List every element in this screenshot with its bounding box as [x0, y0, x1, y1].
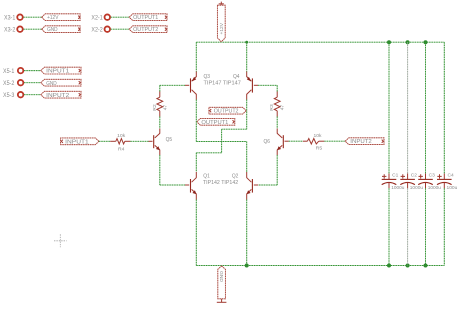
svg-text:R3: R3 — [269, 104, 275, 111]
transistor Q5 — [149, 129, 160, 156]
wire C2 column upper — [407, 42, 409, 173]
resistor R5 — [303, 139, 324, 145]
capacitor C4 — [437, 174, 452, 189]
wire Q4 base net down to R3 — [276, 85, 278, 91]
supply flag +12V — [217, 2, 225, 42]
svg-text:INPUT1: INPUT1 — [65, 139, 89, 145]
svg-text:GND: GND — [218, 271, 224, 283]
svg-text:+12V: +12V — [47, 15, 59, 21]
svg-text:INPUT2: INPUT2 — [46, 93, 69, 99]
svg-text:10k: 10k — [117, 133, 126, 139]
wire R4 to Q5 base — [130, 140, 148, 142]
wire OUT1: down to Q2 collector — [246, 142, 248, 173]
wire C4 column lower — [443, 188, 445, 265]
net flag INPUT2 mid — [345, 138, 384, 145]
net flag GND — [42, 26, 80, 33]
wire X2-1 to OUTPUT1 flag — [111, 16, 130, 18]
wire X5-1 to INPUT1 flag — [24, 70, 41, 72]
wire OUT2: upper horizontal — [222, 128, 247, 130]
wire GND bottom rail — [196, 265, 444, 267]
svg-text:OUTPUT2: OUTPUT2 — [133, 27, 158, 33]
junction top C3 column — [424, 40, 428, 44]
wire Q3 base net down to R2 — [159, 85, 161, 91]
wire Q1 emitter to bottom rail — [195, 200, 197, 266]
wire Q5 emitter down — [159, 155, 161, 185]
junction bottom C2 column — [406, 264, 410, 268]
svg-text:R5: R5 — [316, 146, 323, 152]
wire C3 column lower — [425, 188, 427, 265]
resistor R4 — [110, 139, 130, 144]
wire R5 to INPUT2 flag — [324, 140, 345, 142]
transistor Q6 — [277, 129, 289, 156]
svg-text:Q1: Q1 — [203, 173, 210, 179]
capacitor C3 — [418, 174, 433, 189]
junction top C2 column — [406, 40, 410, 44]
svg-text:Q6: Q6 — [264, 139, 271, 145]
svg-text:X2-2: X2-2 — [91, 27, 103, 33]
wire Q2 emitter to bottom rail — [246, 200, 248, 266]
transistor Q1 TIP142 — [185, 172, 196, 200]
wire C3 column upper — [425, 42, 427, 173]
svg-text:X3-2: X3-2 — [4, 27, 16, 33]
net flag OUTPUT2 top — [129, 26, 167, 33]
svg-text:X5-3: X5-3 — [3, 93, 15, 99]
net flag INPUT1 mid — [61, 138, 99, 145]
wire R3 to Q6 collector — [276, 117, 278, 129]
svg-text:X5-2: X5-2 — [3, 81, 15, 87]
net flag INPUT1 left — [41, 67, 81, 75]
wire Q4 base net — [258, 84, 277, 86]
svg-text:47: 47 — [162, 104, 168, 110]
svg-text:OUTPUT1: OUTPUT1 — [201, 120, 228, 126]
wire C1 column upper — [388, 42, 390, 173]
wire +12V top rail — [196, 41, 444, 43]
pin X5-1 — [18, 68, 24, 74]
wire C2 column lower — [407, 188, 409, 265]
wire Q6 emitter down — [276, 155, 278, 185]
wire OUT1: Q3 collector down — [195, 100, 197, 142]
pin X2-2 — [105, 26, 111, 32]
svg-text:GND: GND — [47, 27, 58, 33]
svg-text:C4: C4 — [448, 172, 455, 178]
wire C1 column lower — [388, 188, 390, 265]
junction bottom Q2 column — [245, 264, 249, 268]
wire OUT2: lower horizontal — [196, 152, 221, 154]
svg-text:1000u: 1000u — [428, 185, 442, 191]
svg-text:+12V: +12V — [219, 22, 225, 34]
wire Q6 emitter to Q2 base — [258, 184, 277, 186]
resistor R2 — [157, 92, 163, 117]
wire Q5 emitter to Q1 base — [160, 184, 185, 186]
wire OUT2: middle vertical — [221, 129, 223, 153]
wire X5-2 to GND flag — [24, 82, 41, 84]
svg-text:C1: C1 — [392, 172, 399, 178]
pin X3-2 — [17, 26, 23, 32]
svg-text:OUTPUT1: OUTPUT1 — [133, 15, 158, 21]
pin X5-3 — [18, 92, 24, 98]
net flag INPUT2 left — [41, 91, 81, 99]
capacitor C2 — [400, 174, 415, 189]
wire R2 to Q5 collector — [159, 117, 161, 129]
svg-text:INPUT1: INPUT1 — [46, 69, 69, 75]
transistor Q3 TIP147 — [185, 72, 196, 100]
svg-text:Q3: Q3 — [204, 74, 211, 80]
resistor R3 — [274, 92, 280, 117]
wire X3-1 to +12V flag — [23, 16, 41, 18]
junction bottom C1 column — [387, 264, 391, 268]
net flag OUTPUT2 mid — [209, 107, 246, 114]
net flag OUTPUT1 mid — [197, 118, 235, 125]
svg-text:R2: R2 — [152, 104, 158, 111]
svg-text:X3-1: X3-1 — [4, 15, 16, 21]
pin X2-1 — [105, 14, 111, 20]
svg-text:TIP147 TIP147: TIP147 TIP147 — [204, 81, 241, 87]
net flag OUTPUT1 top — [129, 14, 167, 21]
transistor Q4 TIP147 — [247, 72, 258, 100]
svg-text:C2: C2 — [411, 172, 418, 178]
wire OUT2: down to Q1 collector — [195, 153, 197, 172]
net flag GND mid — [41, 79, 81, 87]
supply flag GND bottom — [217, 266, 227, 302]
wire X2-2 to OUTPUT2 flag — [111, 28, 130, 30]
svg-text:1000u: 1000u — [391, 185, 405, 191]
svg-text:X5-1: X5-1 — [3, 69, 15, 75]
svg-text:Q4: Q4 — [233, 74, 240, 80]
svg-text:INPUT2: INPUT2 — [350, 139, 372, 145]
svg-text:10k: 10k — [314, 133, 323, 139]
transistor Q2 TIP142 — [247, 172, 259, 200]
wire Q3 emitter to rail — [195, 42, 197, 71]
svg-text:47: 47 — [280, 104, 286, 110]
wire Q3 base net — [160, 84, 185, 86]
pin X3-1 — [17, 14, 23, 20]
svg-text:Q2: Q2 — [232, 173, 239, 179]
wire Q4 emitter to rail — [246, 42, 248, 71]
svg-text:Q5: Q5 — [166, 137, 173, 143]
svg-text:100u: 100u — [447, 185, 458, 191]
wire OUT2: Q4 collector down — [246, 100, 248, 130]
junction top Q4 column — [245, 41, 248, 44]
svg-text:TIP142 TIP142: TIP142 TIP142 — [203, 180, 238, 186]
svg-text:C3: C3 — [429, 172, 436, 178]
origin cross marker — [54, 234, 67, 247]
junction bottom C3 column — [424, 264, 428, 268]
wire C4 column upper — [443, 42, 445, 173]
svg-text:1000u: 1000u — [410, 185, 424, 191]
wire X3-2 to GND flag — [23, 28, 41, 30]
wire underlay tint — [23, 17, 444, 265]
svg-text:OUTPUT2: OUTPUT2 — [214, 109, 239, 115]
wire INPUT1 to R4 — [99, 140, 110, 142]
svg-text:GND: GND — [46, 81, 57, 87]
pin X5-2 — [18, 80, 24, 86]
svg-text:X2-1: X2-1 — [91, 15, 103, 21]
junction top C1 column — [387, 40, 391, 44]
svg-text:R4: R4 — [118, 147, 125, 153]
wire X5-3 to INPUT2 flag — [24, 94, 41, 96]
wire Q6 base to R5 — [289, 140, 303, 142]
wire OUT1: horizontal crossover — [196, 141, 246, 143]
net flag +12V — [42, 14, 80, 21]
capacitor C1 — [382, 174, 397, 189]
